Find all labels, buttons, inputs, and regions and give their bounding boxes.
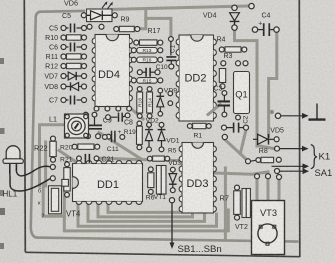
svg-text:VT4: VT4 — [66, 210, 81, 219]
wire C21 long horizontal — [100, 158, 179, 160]
svg-text:C11: C11 — [107, 146, 119, 153]
transistor VT4 — [49, 186, 62, 214]
wire bus under DD1 line5 — [108, 205, 181, 212]
wire DD4 to diode column — [131, 109, 143, 120]
wire common arrow — [281, 115, 308, 117]
wire SA1 arrow — [280, 170, 308, 172]
svg-text:VD8: VD8 — [44, 84, 58, 91]
DD2 pins left — [176, 39, 179, 45]
svg-text:R17: R17 — [148, 28, 161, 35]
resistor R15 — [131, 78, 136, 83]
op-amp DD1 body — [73, 164, 143, 202]
node pad R8 feed — [246, 159, 251, 164]
node pads above DD1 — [86, 134, 91, 139]
DD4 notch — [106, 35, 118, 41]
node pads under DD4 — [94, 106, 99, 111]
svg-text:C5: C5 — [49, 26, 58, 33]
svg-text:C21: C21 — [102, 157, 115, 164]
svg-text:R22: R22 — [34, 144, 48, 153]
DD3 pins right — [214, 146, 217, 152]
svg-text:SB1...SBn: SB1...SBn — [178, 244, 222, 255]
ground common symbol — [316, 104, 318, 120]
svg-text:VT1: VT1 — [154, 194, 166, 201]
svg-text:э: э — [42, 213, 45, 219]
node top-right pad — [249, 3, 254, 8]
wire L1 to left edge — [40, 125, 65, 186]
figure frame right line — [298, 0, 301, 257]
wire DD3 to SA1 pad — [216, 172, 269, 174]
capacitor C21 — [77, 156, 82, 161]
svg-text:R20: R20 — [60, 145, 73, 152]
wire bus under DD1 line2 — [78, 205, 217, 226]
svg-text:R6: R6 — [146, 195, 155, 202]
svg-text:R18: R18 — [138, 98, 144, 107]
wire diagonal C9 to C21 trace — [99, 133, 141, 159]
resistor R14 — [147, 87, 152, 92]
svg-text:VD4: VD4 — [203, 13, 217, 20]
svg-text:R13: R13 — [143, 48, 152, 54]
svg-text:C7: C7 — [49, 98, 58, 105]
svg-text:C6: C6 — [49, 45, 58, 52]
node small pad above VT4 — [62, 179, 69, 186]
svg-text:R7: R7 — [220, 193, 229, 202]
transistor VT1 — [156, 166, 166, 195]
svg-text:R1: R1 — [194, 133, 203, 140]
DD1 pins top — [76, 161, 82, 164]
wire R9 to top trace — [137, 10, 146, 29]
svg-text:Q1: Q1 — [235, 90, 247, 100]
svg-text:R5: R5 — [168, 147, 177, 154]
node VT3 feed pads — [255, 174, 260, 179]
svg-text:VT3: VT3 — [260, 208, 277, 218]
wire VT3 feed 2 — [267, 179, 270, 203]
wire VT3 feed 1 — [256, 179, 259, 203]
svg-text:R8: R8 — [259, 148, 268, 155]
svg-text:VD3: VD3 — [168, 160, 181, 167]
wire diagonal to DD1 — [59, 151, 80, 165]
wire DD3 Y-trace to R8 — [225, 140, 248, 161]
wire VT3 feed 3 — [278, 181, 281, 202]
wire bus under DD1 line3 — [88, 205, 205, 221]
DD2 notch — [191, 35, 203, 41]
svg-text:R10: R10 — [45, 35, 58, 42]
node pads above DD4 — [87, 24, 92, 29]
node SA1 pad — [275, 169, 280, 174]
svg-text:+: + — [258, 20, 262, 27]
op-amp DD4 body — [95, 35, 130, 107]
svg-text:VD7: VD7 — [44, 74, 58, 81]
DD4 pins right — [130, 38, 133, 44]
wire bus under DD1 outer — [64, 210, 228, 231]
svg-text:C2: C2 — [243, 115, 250, 123]
svg-text:R9: R9 — [121, 17, 130, 24]
node K1 pad — [275, 146, 280, 151]
svg-text:C8: C8 — [124, 120, 133, 127]
figure frame left line — [24, 0, 25, 252]
svg-text:C4: C4 — [262, 13, 271, 20]
crystal Q1 — [234, 72, 250, 114]
node via on staircase — [270, 110, 274, 114]
wire DD2 to C3 diag — [208, 105, 220, 115]
node K1 brace — [311, 145, 317, 169]
svg-text:SA1: SA1 — [315, 167, 333, 178]
op-amp DD2 body — [179, 35, 214, 121]
transistor VT3 — [252, 201, 285, 255]
svg-text:VD1: VD1 — [166, 137, 179, 144]
svg-text:L1: L1 — [49, 114, 57, 123]
op-amp DD3 body — [182, 143, 214, 214]
resistor R18 — [137, 87, 142, 92]
wire vertical near R7 — [224, 168, 227, 238]
svg-text:C1: C1 — [170, 44, 177, 53]
figure frame bottom line — [25, 252, 300, 256]
DD1 notch — [73, 177, 79, 189]
svg-text:C5: C5 — [62, 13, 71, 20]
DD1 pins bottom — [76, 202, 82, 205]
node pad near DD3 top right — [222, 134, 227, 139]
svg-text:R19: R19 — [124, 129, 136, 136]
wire VT4 U-trace — [43, 183, 64, 216]
svg-text:VD6: VD6 — [64, 0, 78, 7]
svg-text:K1: K1 — [319, 152, 331, 163]
svg-text:R14: R14 — [148, 98, 154, 107]
node pads left of DD2 — [168, 91, 173, 96]
node common pad — [275, 113, 280, 118]
svg-text:б: б — [38, 189, 41, 195]
DD4 pins left — [92, 38, 95, 44]
DD2 pins right — [214, 39, 217, 45]
svg-text:DD1: DD1 — [97, 179, 119, 191]
wire bus under DD1 line4 — [98, 205, 193, 217]
wire K1 arrow 1 — [280, 148, 308, 150]
wire C4 staircase down — [269, 32, 277, 137]
resistor R1 — [187, 124, 192, 129]
resistor R16 — [131, 57, 136, 62]
svg-text:VD5: VD5 — [270, 128, 284, 135]
svg-text:R3: R3 — [224, 53, 233, 60]
wire to K1 pad — [257, 146, 274, 149]
wire top supply trace — [112, 6, 252, 9]
svg-text:DD3: DD3 — [186, 178, 208, 190]
svg-text:C3: C3 — [214, 86, 223, 93]
capacitor C1 — [169, 37, 174, 42]
svg-text:VT2: VT2 — [235, 224, 248, 231]
svg-text:R16: R16 — [143, 58, 152, 64]
node SB pad — [169, 198, 174, 203]
svg-text:DD4: DD4 — [98, 69, 120, 81]
transistor VT2 — [242, 189, 250, 218]
svg-text:R15: R15 — [143, 78, 152, 84]
svg-text:R11: R11 — [46, 54, 58, 61]
board outline — [31, 11, 299, 242]
DD3 pins left — [179, 146, 182, 152]
wire SB arrow — [171, 203, 173, 243]
wire K1 arrow 2 — [272, 165, 309, 167]
wire second left vertical — [44, 142, 47, 186]
DD3 notch — [192, 143, 204, 149]
svg-text:DD2: DD2 — [184, 73, 206, 85]
svg-text:R12: R12 — [45, 64, 58, 71]
wire VD4 elbow down right side — [235, 30, 258, 147]
svg-text:R4: R4 — [217, 37, 226, 44]
resistor R13 — [131, 48, 136, 53]
